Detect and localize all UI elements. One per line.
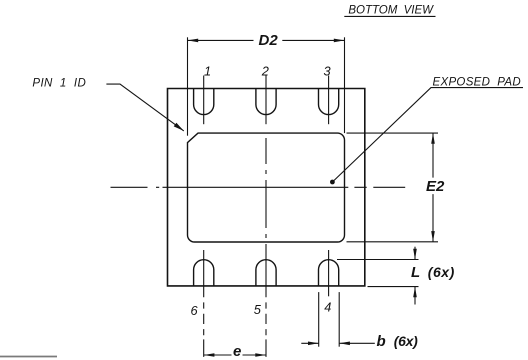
svg-text:E2: E2 xyxy=(426,178,445,195)
exposed pad xyxy=(188,133,345,242)
pin 6 number xyxy=(191,303,199,318)
package outline xyxy=(168,89,365,286)
svg-text:6: 6 xyxy=(191,303,199,318)
svg-text:EXPOSED PAD: EXPOSED PAD xyxy=(433,77,521,89)
title BOTTOM VIEW xyxy=(348,5,434,17)
pin 5 center line xyxy=(265,302,267,357)
svg-text:4: 4 xyxy=(324,299,331,314)
dimension b extension line left xyxy=(318,292,320,347)
dimension D2 extension line left xyxy=(187,37,189,135)
dimension L label xyxy=(411,264,420,281)
table edge fragment bottom-left xyxy=(0,356,57,358)
dimension E2 extension line top xyxy=(347,132,439,134)
pin 4 xyxy=(319,260,339,286)
exposed pad leader dot xyxy=(330,180,335,185)
dimension L extension line top xyxy=(337,259,419,261)
dimension D2 label xyxy=(259,32,279,49)
horizontal center line xyxy=(111,186,406,188)
pin 6 xyxy=(194,260,214,286)
dimension b arrow left xyxy=(301,342,318,344)
pin 2 number xyxy=(261,63,269,78)
pin 5 xyxy=(256,260,276,286)
pin 1 id label xyxy=(32,77,85,89)
pin 3 number xyxy=(324,63,331,78)
dimension L count label (6x) xyxy=(428,264,455,280)
dimension e label xyxy=(233,343,241,360)
dimension E2 arrow top xyxy=(431,133,435,144)
pin 4 center line xyxy=(328,250,330,296)
pin 1 id leader xyxy=(106,84,183,131)
dimension D2 arrow right xyxy=(334,39,345,43)
dimension L arrow top xyxy=(414,247,416,260)
dimension E2 label xyxy=(426,178,445,195)
svg-text:2: 2 xyxy=(261,63,269,78)
dimension D2 line xyxy=(188,39,345,41)
pin 1 id leader arrowhead xyxy=(174,123,184,131)
dimension b extension line right xyxy=(338,292,340,347)
svg-text:D2: D2 xyxy=(259,32,279,49)
pin 1 number xyxy=(204,63,211,78)
dimension e line xyxy=(204,354,266,356)
dimension E2 arrow bottom xyxy=(431,231,435,242)
exposed pad leader xyxy=(332,88,523,182)
svg-text:1: 1 xyxy=(204,63,211,78)
pin 3 xyxy=(319,89,339,115)
svg-text:5: 5 xyxy=(254,302,262,317)
pin 2 xyxy=(256,89,276,115)
dimension E2 extension line bottom xyxy=(347,241,439,243)
svg-text:PIN 1 ID: PIN 1 ID xyxy=(32,77,85,89)
dimension L extension line bottom xyxy=(368,286,419,288)
pin 2 center line xyxy=(265,76,267,125)
dimension e arrow left xyxy=(204,353,215,357)
exposed pad label xyxy=(433,77,521,89)
pin 3 center line xyxy=(328,76,330,125)
svg-text:L: L xyxy=(411,264,420,281)
pin 5 number xyxy=(254,302,262,317)
dimension E2 line xyxy=(432,133,434,242)
dimension L arrow bottom xyxy=(414,287,416,305)
dimension b label xyxy=(377,333,386,350)
dimension b arrow right xyxy=(339,342,375,344)
pin 1 xyxy=(194,89,214,115)
svg-text:BOTTOM VIEW: BOTTOM VIEW xyxy=(348,5,434,17)
vertical center line xyxy=(265,138,267,297)
pin 4 number xyxy=(324,299,331,314)
svg-text:(6x): (6x) xyxy=(394,333,418,349)
title underline xyxy=(344,15,435,17)
svg-text:e: e xyxy=(233,343,241,360)
dimension b count label (6x) xyxy=(394,333,418,349)
svg-text:3: 3 xyxy=(324,63,331,78)
pin 1 center line xyxy=(203,76,205,125)
dimension D2 extension line right xyxy=(344,37,346,133)
dimension e arrow right xyxy=(255,353,266,357)
svg-text:(6x): (6x) xyxy=(428,264,455,280)
svg-text:b: b xyxy=(377,333,386,350)
pin 6 center line xyxy=(203,250,205,357)
dimension D2 arrow left xyxy=(188,39,199,43)
